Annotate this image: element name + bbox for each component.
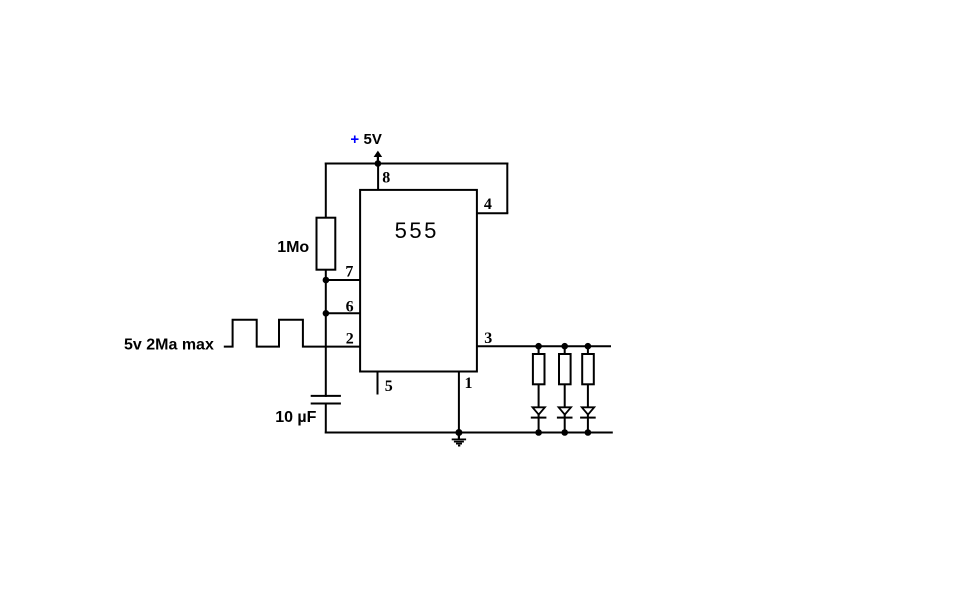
junction dot pin1 ground node xyxy=(455,429,462,436)
svg-text:8: 8 xyxy=(382,170,390,187)
junction dot LED branch 2 bottom xyxy=(561,429,568,436)
wire: branch 3 bottom xyxy=(587,413,589,433)
wire: branch 2 bottom xyxy=(564,413,566,433)
junction dot pin 6 node xyxy=(323,310,330,317)
node +5V label xyxy=(350,131,381,148)
input square wave symbol and wire to pin 2 xyxy=(224,320,360,347)
svg-text:2: 2 xyxy=(346,331,354,348)
junction dot LED branch 1 top xyxy=(535,343,542,350)
wire: pin 8 vertical to chip top xyxy=(377,164,379,191)
wire: left vertical from rail to resistor R1 xyxy=(325,163,327,219)
svg-text:6: 6 xyxy=(346,299,354,316)
junction dot LED branch 1 bottom xyxy=(535,429,542,436)
junction dot LED branch 3 bottom xyxy=(585,429,592,436)
resistor R3 xyxy=(559,354,571,384)
svg-text:5v 2Ma max: 5v 2Ma max xyxy=(124,336,214,353)
resistor R1 1Mo xyxy=(317,218,336,270)
svg-text:1: 1 xyxy=(465,375,473,392)
svg-text:7: 7 xyxy=(345,264,353,281)
wire: branch 1 bottom xyxy=(538,413,540,433)
wire: pin 6 horizontal xyxy=(325,312,360,314)
wire: right vertical (reset pin 4 to rail) xyxy=(506,163,508,214)
svg-text:1Mo: 1Mo xyxy=(277,239,309,256)
junction dot LED branch 2 top xyxy=(561,343,568,350)
wire: bottom ground rail xyxy=(325,432,613,434)
LED D1 xyxy=(531,407,547,417)
wire: pin 1 vertical to ground rail xyxy=(458,372,460,433)
wire: branch 1 middle xyxy=(538,384,540,408)
LED D2 xyxy=(557,407,573,417)
capacitor C1 top plate xyxy=(311,395,341,397)
wire: branch 1 top stub xyxy=(538,346,540,355)
resistor R4 xyxy=(582,354,594,384)
wire: from capacitor bottom to ground rail xyxy=(325,404,327,434)
power arrow (+5V supply) xyxy=(374,151,383,164)
wire: pin 7 horizontal xyxy=(325,279,360,281)
resistor R2 xyxy=(533,354,545,384)
IC U1 555 timer body xyxy=(360,190,477,372)
junction dot pin 7 node xyxy=(323,277,330,284)
svg-text:4: 4 xyxy=(484,196,492,213)
junction dot LED branch 3 top xyxy=(585,343,592,350)
svg-text:10 µF: 10 µF xyxy=(275,409,316,426)
svg-text:5V: 5V xyxy=(364,131,382,148)
wire: pin 4 horizontal xyxy=(477,212,508,214)
wire: branch 3 middle xyxy=(587,384,589,408)
junction dot at supply node xyxy=(375,160,382,167)
svg-text:5: 5 xyxy=(385,378,393,395)
wire: pin 5 stub xyxy=(377,372,379,395)
wire: top horizontal rail xyxy=(325,163,509,165)
ground xyxy=(452,433,466,446)
wire: branch 2 top stub xyxy=(564,346,566,355)
wire: pin 3 output horizontal xyxy=(477,345,611,347)
svg-text:+: + xyxy=(350,131,359,148)
LED D3 xyxy=(580,407,596,417)
capacitor C1 bottom plate xyxy=(311,403,341,405)
svg-text:3: 3 xyxy=(484,330,492,347)
wire: branch 2 middle xyxy=(564,384,566,408)
svg-text:555: 555 xyxy=(395,218,439,243)
wire: branch 3 top stub xyxy=(587,346,589,355)
wire: vertical from R1 bottom down to capacitor xyxy=(325,270,327,397)
